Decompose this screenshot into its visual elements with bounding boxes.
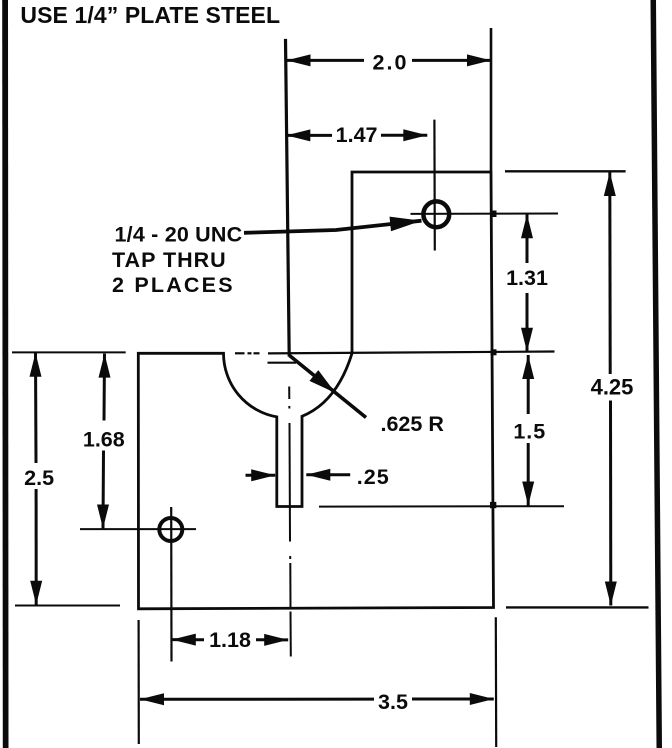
svg-text:2.5: 2.5 [24, 466, 54, 490]
dimension 2.5 [34, 353, 38, 605]
svg-text:.625 R: .625 R [381, 412, 445, 436]
dimension .25 (slot width) [246, 473, 351, 477]
svg-text:4.25: 4.25 [591, 374, 634, 399]
wire: 2.0 left extension line / slot upper centerline [286, 39, 290, 357]
dimension 1.31 [526, 214, 529, 352]
wire: 4.25 top extension line [505, 170, 626, 172]
wire: 4.25 bottom extension line [506, 606, 649, 608]
svg-text:.25: .25 [357, 465, 390, 489]
svg-text:2.0: 2.0 [373, 50, 409, 74]
hole H1 (top tap hole) [423, 201, 449, 227]
wire: bottom hole vertical centerline / 1.18 left extension [170, 507, 173, 662]
wire: top hole horizontal centerline [411, 213, 559, 215]
svg-text:1.5: 1.5 [513, 419, 546, 443]
junction dot at right edge / hole centerline [490, 211, 497, 218]
wire: 3.5 left extension line [138, 620, 140, 744]
svg-text:1.31: 1.31 [506, 266, 548, 290]
dimension 3.5 [140, 698, 494, 701]
svg-text:TAP THRU: TAP THRU [112, 248, 227, 272]
centerline dash-dot horizontal at keyhole [235, 352, 260, 354]
svg-text:1.68: 1.68 [83, 428, 125, 452]
dimension 2.0 [287, 59, 492, 62]
wire: 3.5 right extension line [495, 617, 498, 747]
dimension 4.25 [610, 172, 611, 606]
leader .625 R radius [290, 356, 367, 418]
scan border bar right [651, 0, 663, 748]
junction dot at right edge / top-level line [491, 349, 497, 355]
wire: bottom hole horizontal centerline [80, 528, 196, 530]
svg-text:USE 1/4” PLATE STEEL: USE 1/4” PLATE STEEL [20, 2, 280, 28]
svg-text:1/4 - 20 UNC: 1/4 - 20 UNC [115, 223, 243, 247]
dimension 1.68 [103, 354, 105, 529]
svg-text:1.18: 1.18 [209, 628, 251, 652]
wire: left bottom extension line [15, 605, 120, 607]
svg-text:1.47: 1.47 [336, 123, 378, 147]
part outline (keyhole plate) [138, 172, 493, 609]
svg-text:2 PLACES: 2 PLACES [112, 273, 235, 297]
dimension 1.18 [172, 638, 288, 641]
scan border bar left [2, 0, 8, 748]
dimension 1.47 [286, 134, 427, 137]
svg-text:3.5: 3.5 [378, 690, 408, 714]
wire: left top extension line [12, 351, 126, 353]
wire: slot-bottom extension line [319, 505, 564, 507]
wire: horizontal extension at body top level [268, 352, 555, 354]
wire: 1.47 right extension line through top hole [433, 120, 436, 251]
junction dot at right edge / slot-bottom line [490, 502, 496, 508]
leader from UNC note to top hole [244, 221, 422, 233]
dimension 1.5 [527, 355, 530, 506]
centerline dash-dot vertical of slot [289, 387, 291, 657]
short line below keyhole center [268, 362, 297, 364]
wire: 2.0 right extension line [490, 28, 493, 171]
hole H2 (bottom tap hole) [159, 518, 182, 541]
